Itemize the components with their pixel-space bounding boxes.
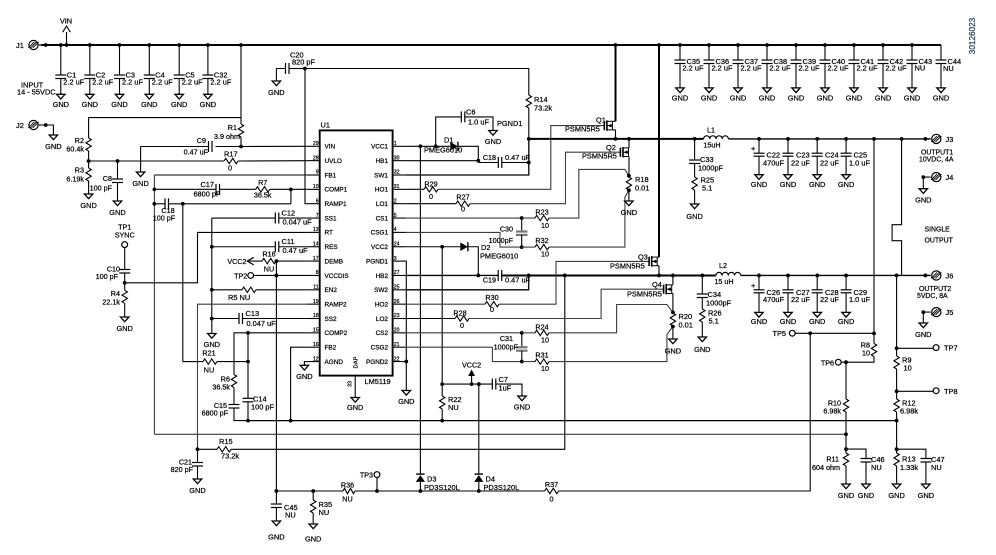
svg-text:SW2: SW2 [374, 287, 388, 294]
capacitor C11 [210, 237, 308, 255]
svg-text:0.047 uF: 0.047 uF [283, 218, 313, 227]
wire CSG1 to R18 bottom [549, 190, 629, 247]
resistor R32 [535, 236, 549, 259]
svg-text:10: 10 [541, 364, 549, 373]
svg-text:PGND2: PGND2 [366, 359, 388, 366]
ground R18 [621, 201, 637, 217]
svg-text:Q3: Q3 [638, 253, 648, 262]
wire CS2 net [406, 331, 535, 335]
svg-text:18: 18 [313, 313, 319, 319]
ground C27 [780, 312, 796, 326]
svg-text:C30: C30 [500, 225, 513, 234]
wire VCC1 net [406, 145, 451, 147]
svg-text:R3: R3 [75, 166, 84, 175]
ground C6 PGND1 [485, 119, 523, 146]
svg-text:22.1k: 22.1k [102, 298, 120, 307]
svg-text:LO2: LO2 [376, 316, 389, 323]
node R12 bottom [895, 421, 899, 452]
wire VIN to R2 top [89, 118, 241, 138]
pin 5 CS1 [376, 213, 406, 223]
svg-text:VCCDIS: VCCDIS [325, 273, 349, 280]
svg-text:0.01: 0.01 [635, 184, 649, 193]
resistor R28 [406, 309, 469, 331]
wire VOUT2 sense column [895, 275, 899, 350]
svg-text:6.98k: 6.98k [823, 407, 841, 416]
capacitor C33 [689, 139, 723, 177]
svg-text:6: 6 [316, 198, 319, 204]
svg-text:GND: GND [701, 94, 717, 103]
svg-text:GND: GND [780, 180, 796, 189]
ground R3 [80, 194, 96, 210]
svg-text:RT: RT [325, 230, 333, 237]
svg-text:GND: GND [838, 180, 854, 189]
capacitor C10 [96, 265, 131, 283]
svg-text:2.2 uF: 2.2 uF [799, 63, 820, 72]
node VCC1/C6 [434, 144, 438, 148]
svg-text:20: 20 [394, 328, 400, 334]
ground C36 [701, 88, 717, 103]
resistor R9 [894, 348, 912, 391]
node RAMP1/C20 [303, 67, 307, 71]
svg-text:GND: GND [141, 100, 157, 109]
pin 25 SW2 [374, 285, 405, 295]
capacitor C38 [762, 43, 791, 88]
svg-text:10: 10 [862, 349, 870, 358]
svg-text:12: 12 [313, 356, 319, 362]
svg-text:GND: GND [171, 100, 187, 109]
inductor L2 [714, 261, 740, 286]
wire CS1 net [406, 216, 535, 220]
wire VOUT2 line [741, 274, 931, 278]
svg-text:R29: R29 [424, 180, 437, 189]
pin 20 CS2 [376, 328, 406, 338]
svg-text:PD3S120L: PD3S120L [484, 483, 520, 492]
svg-text:SYNC: SYNC [115, 231, 135, 240]
node VCC2 flag [462, 361, 481, 385]
wire HO1 to Q1 gate [438, 126, 604, 190]
svg-text:J4: J4 [946, 173, 954, 182]
svg-text:J3: J3 [946, 135, 954, 144]
svg-text:6800 pF: 6800 pF [193, 190, 221, 199]
svg-text:2.2 uF: 2.2 uF [712, 63, 733, 72]
capacitor C25 [841, 139, 871, 175]
svg-text:GND: GND [809, 317, 825, 326]
resistor R1 [214, 43, 244, 146]
capacitor C6 [436, 108, 493, 147]
svg-text:GND: GND [111, 100, 127, 109]
resistor R13 [894, 449, 918, 484]
pin 16 FB2 [307, 342, 337, 352]
svg-text:PSMN5R5: PSMN5R5 [610, 262, 645, 271]
svg-text:SS2: SS2 [325, 316, 338, 323]
svg-text:2.2 uF: 2.2 uF [857, 63, 878, 72]
capacitor C20 [276, 51, 315, 82]
svg-text:R1: R1 [228, 123, 237, 132]
ground C32 [200, 94, 216, 109]
ground C25 [838, 175, 854, 189]
label document number [968, 17, 977, 54]
resistor R10 [823, 362, 848, 434]
resistor R20 [670, 311, 693, 340]
svg-text:HO2: HO2 [375, 301, 389, 308]
capacitor C7 [492, 375, 522, 396]
label SINGLE OUTPUT [925, 227, 954, 245]
wire SW1 bus [527, 137, 704, 141]
ground R35 [305, 524, 321, 544]
svg-text:0: 0 [461, 205, 465, 214]
resistor R25 [692, 176, 714, 205]
pin 15 COMP2 [307, 328, 348, 338]
svg-text:C13: C13 [246, 309, 260, 318]
svg-text:31: 31 [394, 184, 400, 190]
capacitor C35 [675, 43, 704, 88]
svg-text:GND: GND [838, 317, 854, 326]
svg-text:1uF: 1uF [499, 384, 512, 393]
test point TP8 [895, 387, 958, 396]
svg-text:13: 13 [313, 227, 319, 233]
svg-text:HO1: HO1 [375, 187, 389, 194]
svg-text:GND: GND [268, 533, 284, 542]
pin 22 PGND2 [366, 356, 406, 366]
ground C3 [111, 94, 127, 109]
capacitor C37 [733, 43, 762, 88]
svg-text:GND: GND [780, 317, 796, 326]
svg-text:PSMN5R5: PSMN5R5 [582, 152, 617, 161]
capacitor C24 [812, 139, 840, 175]
capacitor C13 [210, 309, 307, 328]
svg-text:2.2 uF: 2.2 uF [182, 78, 203, 87]
svg-text:1000pF: 1000pF [698, 164, 724, 173]
pin 12 AGND [307, 356, 344, 366]
pin 27 HB2 [376, 270, 406, 280]
svg-text:24: 24 [394, 241, 400, 247]
svg-text:FB2: FB2 [325, 345, 337, 352]
connector J4 [921, 173, 953, 189]
svg-text:100 pF: 100 pF [96, 272, 119, 281]
wire J2 to ground [41, 123, 53, 135]
svg-text:RES: RES [325, 244, 338, 251]
svg-text:0.047 uF: 0.047 uF [247, 319, 277, 328]
svg-text:PSMN5R5: PSMN5R5 [565, 125, 600, 134]
svg-text:GND: GND [514, 403, 530, 412]
test point TP6 [821, 358, 848, 367]
svg-text:8: 8 [316, 270, 319, 276]
resistor R11 [812, 449, 849, 484]
resistor R16 [227, 250, 306, 274]
wire SW2 bus [502, 274, 716, 278]
svg-text:470uF: 470uF [763, 158, 784, 167]
ground C24 [809, 175, 825, 189]
svg-text:VCC2: VCC2 [462, 361, 481, 370]
svg-text:GND: GND [296, 372, 312, 381]
svg-text:VCC2: VCC2 [371, 244, 388, 251]
resistor R4 [102, 283, 127, 317]
capacitor C34 [697, 275, 732, 309]
svg-text:CSG1: CSG1 [371, 230, 389, 237]
wire CS2 to R20 top [549, 305, 673, 333]
svg-text:R24: R24 [535, 323, 548, 332]
resistor R37 [545, 480, 559, 504]
resistor R29 [406, 180, 438, 202]
svg-text:32: 32 [394, 170, 400, 176]
wire PGND1 to PGND2 [404, 261, 408, 390]
ground C39 [788, 88, 804, 103]
ground C43 [904, 88, 920, 103]
resistor R36 [341, 481, 355, 504]
svg-text:C19: C19 [483, 276, 496, 285]
ground R26 [694, 337, 710, 354]
capacitor C27 [783, 275, 811, 312]
svg-text:+: + [751, 144, 756, 153]
capacitor C40 [820, 43, 849, 88]
capacitor C12 [212, 209, 312, 334]
svg-text:GND: GND [933, 94, 949, 103]
ground C22 [751, 175, 767, 189]
svg-text:GND: GND [904, 94, 920, 103]
pin 3 PGND1 [366, 256, 406, 266]
ground J2 [45, 135, 61, 151]
svg-text:19: 19 [313, 299, 319, 305]
resistor R18 [626, 169, 649, 201]
resistor R27 [406, 192, 470, 213]
svg-text:GND: GND [686, 212, 702, 221]
diode D2 PMEG6010 [442, 242, 518, 275]
node VIN pin / R1 [239, 145, 307, 149]
svg-text:2.2 uF: 2.2 uF [210, 78, 231, 87]
svg-text:2.2 uF: 2.2 uF [828, 63, 849, 72]
svg-text:0.47 uF: 0.47 uF [184, 148, 209, 157]
svg-text:SS1: SS1 [325, 215, 338, 222]
svg-text:C9: C9 [197, 136, 206, 145]
label OUTPUT1 [919, 150, 954, 164]
ground C37 [730, 88, 746, 103]
svg-text:OUTPUT: OUTPUT [925, 238, 954, 245]
resistor R23 [535, 208, 549, 231]
svg-text:R16: R16 [262, 250, 275, 259]
svg-text:TP7: TP7 [944, 344, 958, 353]
svg-text:NU: NU [264, 265, 274, 274]
test point TP7 [897, 344, 958, 353]
svg-text:J5: J5 [946, 308, 954, 317]
op-amp U1 LM5119 body [320, 121, 393, 387]
node FB1/C17 [153, 187, 157, 205]
wire VIN to Q3 drain [657, 43, 661, 257]
ground C5 [171, 94, 187, 109]
resistor R22 [440, 384, 462, 422]
svg-text:820 pF: 820 pF [292, 58, 315, 67]
svg-text:0: 0 [228, 164, 232, 173]
ground C4 [141, 94, 157, 109]
svg-text:2.2 uF: 2.2 uF [770, 63, 791, 72]
node C18/R21 column [181, 202, 185, 362]
svg-text:PGND1: PGND1 [497, 119, 522, 128]
svg-text:15 uH: 15 uH [714, 277, 733, 286]
svg-text:TP3: TP3 [360, 471, 373, 480]
diode D1 PMEG6010 [424, 136, 478, 163]
svg-text:HB1: HB1 [376, 158, 389, 165]
svg-text:C18: C18 [483, 153, 496, 162]
ground C41 [846, 88, 862, 103]
svg-text:GND: GND [915, 330, 931, 339]
svg-text:Q1: Q1 [596, 116, 606, 125]
svg-text:5: 5 [394, 213, 397, 219]
diode D4 PD3S120L [474, 382, 519, 493]
pin 11 EN2 [307, 285, 338, 295]
ground C7 [514, 396, 530, 412]
svg-text:33: 33 [348, 381, 354, 387]
pin 2 LO1 [376, 198, 406, 208]
svg-text:GND: GND [751, 317, 767, 326]
svg-text:4: 4 [394, 227, 397, 233]
capacitor C5 [174, 43, 203, 94]
svg-text:NU: NU [319, 508, 330, 517]
svg-text:1000pF: 1000pF [494, 343, 519, 352]
svg-text:NU: NU [342, 495, 352, 504]
label INPUT 14-55VDC [17, 81, 56, 97]
svg-text:470uF: 470uF [763, 295, 784, 304]
svg-text:VIN: VIN [325, 144, 336, 151]
svg-text:10: 10 [541, 250, 549, 259]
svg-text:26: 26 [394, 299, 400, 305]
svg-text:GND: GND [665, 347, 681, 356]
svg-text:NU: NU [915, 63, 926, 72]
ground C9 [132, 172, 148, 188]
svg-text:25: 25 [394, 285, 400, 291]
svg-text:Q4: Q4 [652, 280, 662, 289]
svg-text:GND: GND [846, 94, 862, 103]
capacitor C47 [897, 449, 945, 484]
svg-text:3: 3 [394, 256, 397, 262]
node R10 bottom [844, 434, 848, 451]
wire HB2 net [406, 274, 499, 278]
svg-text:VCC1: VCC1 [371, 144, 388, 151]
svg-text:C12: C12 [282, 209, 296, 218]
svg-text:COMP2: COMP2 [325, 330, 348, 337]
svg-text:C11: C11 [282, 237, 295, 246]
wire SW2 pin riser [406, 275, 529, 289]
svg-text:GND: GND [817, 94, 833, 103]
wire LO2 to Q4 gate [469, 289, 664, 318]
wire LO1 to Q2 gate [470, 152, 620, 204]
resistor R15 [217, 275, 565, 460]
svg-text:5VDC, 8A: 5VDC, 8A [917, 293, 948, 300]
ground R13 [888, 484, 904, 500]
ground R11 [838, 484, 854, 500]
svg-text:GND: GND [132, 179, 148, 188]
svg-text:R28: R28 [453, 309, 466, 318]
capacitor C14 [243, 395, 275, 423]
svg-text:6.98k: 6.98k [900, 407, 918, 416]
wire VCC2 lower rail [440, 382, 492, 386]
svg-text:GND: GND [809, 180, 825, 189]
ground C29 [838, 312, 854, 326]
svg-text:L1: L1 [707, 126, 715, 135]
svg-text:R30: R30 [485, 293, 498, 302]
pin 17 DEMB [307, 256, 343, 266]
svg-text:CSG2: CSG2 [371, 345, 389, 352]
svg-text:GND: GND [45, 142, 61, 151]
svg-text:GND: GND [621, 208, 637, 217]
ground R25 [686, 204, 702, 221]
pin 13 RT [307, 227, 333, 237]
capacitor C26 [751, 275, 784, 312]
capacitor C42 [878, 43, 907, 88]
svg-text:C6: C6 [466, 108, 475, 117]
capacitor C8 [90, 159, 123, 201]
wire RES line [275, 259, 811, 493]
ground C8 [109, 201, 125, 217]
connector J2 [16, 120, 41, 130]
pin 28 UVLO [307, 155, 342, 165]
svg-text:GND: GND [858, 491, 874, 500]
wire FB1 net [154, 175, 306, 434]
pin 9 FB1 [307, 170, 337, 180]
resistor R12 [894, 391, 918, 422]
capacitor C32 [202, 43, 231, 94]
svg-text:L2: L2 [719, 261, 727, 270]
svg-text:36.5k: 36.5k [212, 383, 230, 392]
svg-text:28: 28 [313, 155, 319, 161]
resistor R26 [700, 309, 722, 338]
ground C23 [780, 175, 796, 189]
capacitor C22 [751, 139, 784, 175]
svg-text:6.19k: 6.19k [66, 175, 84, 184]
svg-text:7: 7 [316, 213, 319, 219]
ground C42 [875, 88, 891, 103]
svg-text:10VDC, 4A: 10VDC, 4A [919, 157, 954, 164]
pin 1 VCC1 [371, 141, 406, 151]
wire FB2 pin drop [289, 347, 307, 422]
svg-text:3.9 ohm: 3.9 ohm [214, 132, 240, 141]
capacitor C36 [704, 43, 733, 88]
ground SS column [204, 334, 220, 350]
svg-text:GND: GND [82, 100, 98, 109]
svg-text:RAMP2: RAMP2 [325, 301, 347, 308]
svg-text:2.2 uF: 2.2 uF [122, 78, 143, 87]
wire COMP2 net [234, 333, 307, 375]
svg-text:22 uF: 22 uF [791, 158, 810, 167]
node R2/R3 [87, 151, 224, 163]
connector J3 [925, 134, 953, 144]
svg-text:GND: GND [80, 201, 96, 210]
svg-text:R15: R15 [219, 437, 233, 446]
svg-text:+: + [751, 281, 756, 290]
svg-text:10: 10 [313, 184, 319, 190]
svg-text:5.1: 5.1 [702, 184, 712, 193]
ground PGND2 [398, 391, 414, 407]
svg-text:17: 17 [313, 256, 319, 262]
capacitor C19b C18 [478, 153, 530, 168]
svg-text:0: 0 [429, 192, 433, 201]
svg-text:GND: GND [485, 137, 501, 146]
svg-text:HB2: HB2 [376, 273, 389, 280]
svg-text:VCC2: VCC2 [227, 257, 246, 266]
pin 21 CSG2 [371, 342, 406, 352]
svg-text:RAMP1: RAMP1 [325, 201, 347, 208]
capacitor C41 [849, 43, 878, 88]
svg-text:2: 2 [394, 198, 397, 204]
svg-text:30: 30 [394, 155, 400, 161]
svg-text:R17: R17 [224, 150, 238, 159]
svg-text:GND: GND [751, 180, 767, 189]
wire VIN rail [41, 44, 941, 46]
ground J4 [915, 189, 931, 205]
capacitor C23 [783, 139, 811, 175]
svg-text:PD3S120L: PD3S120L [424, 483, 460, 492]
svg-text:UVLO: UVLO [325, 158, 342, 165]
svg-text:22 uF: 22 uF [791, 295, 810, 304]
test point TP2 [234, 271, 307, 280]
